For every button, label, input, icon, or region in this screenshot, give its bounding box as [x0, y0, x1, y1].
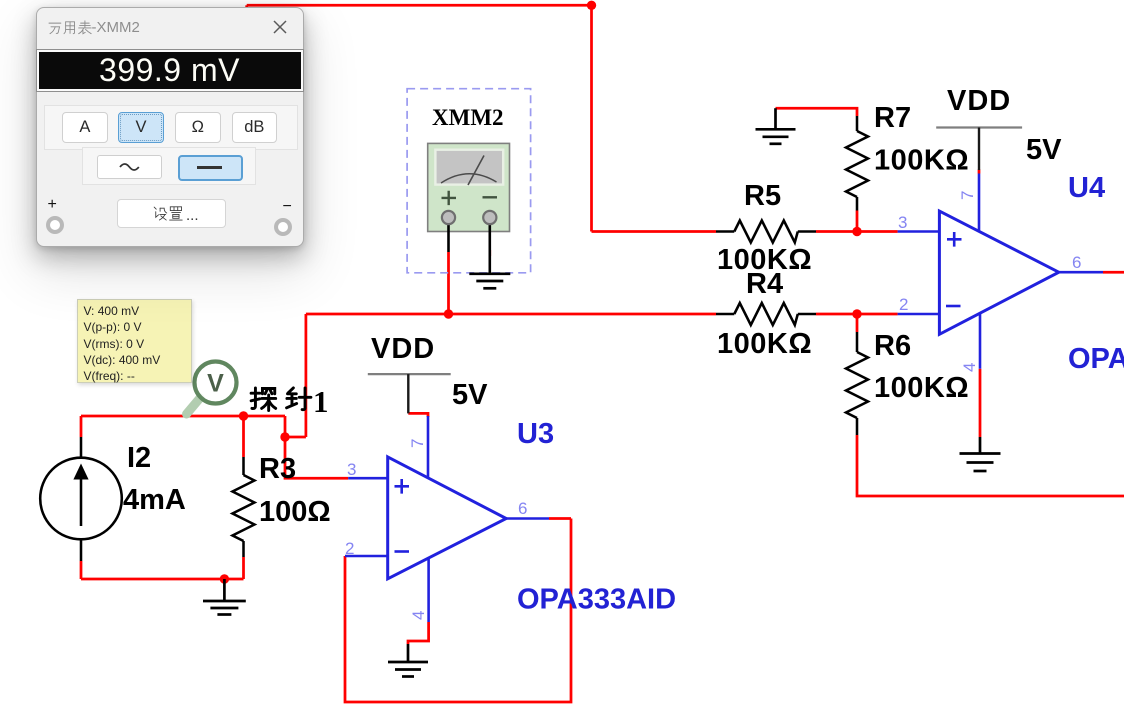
ground G1 (R7 top)	[756, 108, 796, 144]
svg-text:U3: U3	[517, 418, 554, 450]
wire XMM2 plus lead lower part	[447, 252, 450, 314]
wire R4 right to node	[816, 313, 898, 316]
svg-text:R4: R4	[746, 268, 783, 300]
junction top right	[587, 1, 596, 10]
resistor R4	[716, 303, 816, 325]
XMM2 meter display	[435, 150, 503, 185]
current source I2 arrowhead	[73, 464, 88, 480]
probe name 探针1	[251, 384, 328, 419]
svg-text:2: 2	[345, 539, 354, 558]
U4 pin 2 lead	[898, 313, 940, 316]
button DC (selected)	[178, 155, 243, 182]
svg-text:4: 4	[409, 611, 428, 620]
wire I2 bottom lead red	[80, 561, 83, 579]
multimeter dialog XMM2	[36, 7, 304, 247]
U3 pin 3 lead	[348, 477, 388, 480]
button AC	[97, 155, 163, 179]
svg-text:7: 7	[408, 439, 427, 448]
wire U3 feedback loop	[345, 519, 571, 703]
VDD symbol for U4	[936, 128, 1022, 171]
U4 pin 3 lead	[898, 230, 940, 233]
wire U3 pin4 elbow to ground G4	[408, 622, 429, 644]
VDD symbol for U3	[368, 374, 451, 413]
XMM2 plus mark	[442, 191, 457, 205]
wire probe node corner down	[284, 416, 287, 437]
svg-text:R3: R3	[259, 453, 296, 485]
U3 pin 6 lead	[506, 517, 549, 520]
ground G5 (U4 pin4)	[960, 437, 1001, 471]
svg-text:R5: R5	[744, 180, 781, 212]
wire U4 pin4 to ground G5	[979, 369, 982, 437]
resistor R7	[846, 116, 868, 211]
plus terminal label	[48, 196, 57, 214]
probe readout box	[77, 299, 192, 383]
U4 pin 6 lead	[1059, 271, 1103, 274]
ground G4 (U3 pin4)	[388, 644, 428, 677]
svg-text:7: 7	[958, 191, 977, 200]
wire R6 bottom to right edge	[857, 435, 1124, 496]
svg-text:3: 3	[347, 460, 356, 479]
svg-text:VDD: VDD	[947, 85, 1011, 117]
wire I2 top lead red	[80, 416, 83, 437]
button A	[62, 112, 108, 143]
wire middle horizontal to R4	[306, 313, 716, 316]
button Ohm	[175, 112, 221, 143]
resistor R3	[233, 457, 255, 557]
U3 minus marking	[395, 550, 410, 553]
svg-text:5V: 5V	[1026, 134, 1062, 166]
wire R7 top to ground G1	[776, 108, 858, 116]
op-amp U4 triangle	[939, 211, 1058, 334]
wire riser up to middle net	[305, 314, 308, 437]
U4 minus marking	[946, 305, 961, 308]
XMM2 minus mark	[483, 196, 498, 198]
junction ground on bottom net	[220, 574, 229, 583]
current source I2	[40, 437, 122, 561]
XMM2 minus lead red tip	[488, 250, 491, 256]
wire U4 pin7 red tip	[978, 170, 981, 174]
wire down to U3 pin3	[285, 437, 348, 478]
junction R5/R7/U4 pin3	[852, 227, 861, 236]
dialog title	[46, 18, 48, 38]
svg-text:5V: 5V	[452, 379, 488, 411]
wire stub behind dialog	[245, 5, 248, 14]
svg-text:2: 2	[899, 295, 908, 314]
svg-text:100Ω: 100Ω	[259, 496, 331, 528]
XMM2 plus terminal socket	[442, 211, 455, 224]
settings button	[117, 199, 226, 229]
U3 pin 2 lead	[345, 555, 388, 558]
wire right vertical from top to R5 row	[590, 5, 593, 231]
op-amp U3 triangle	[388, 457, 507, 579]
wire top horizontal net	[247, 4, 592, 7]
svg-text:6: 6	[1072, 253, 1081, 272]
dialog close button	[272, 19, 288, 35]
wire R5 right to node	[816, 230, 898, 233]
U3 pin 4 lead	[427, 558, 430, 622]
ground G2 (XMM2 minus)	[469, 274, 510, 289]
svg-text:4: 4	[960, 363, 979, 372]
U4 pin 7 lead	[978, 174, 981, 232]
svg-text:I2: I2	[127, 442, 151, 474]
wire U3 pin7 elbow	[408, 413, 428, 417]
svg-text:100KΩ: 100KΩ	[874, 145, 969, 177]
dialog mode group	[44, 105, 298, 150]
resistor R6	[846, 332, 868, 435]
XMM2 dashed selection box	[407, 89, 530, 273]
wire R3 bottom	[242, 557, 245, 579]
minus terminal socket	[274, 218, 292, 236]
wire R6 top	[856, 314, 859, 332]
svg-text:R6: R6	[874, 330, 911, 362]
junction probe net corner	[280, 432, 289, 441]
minus terminal label	[283, 198, 292, 216]
XMM2 plus terminal lead (black)	[447, 218, 450, 252]
dialog signal group	[82, 147, 256, 185]
svg-text:VDD: VDD	[371, 333, 435, 365]
dialog display	[37, 50, 303, 91]
ground G3 (bottom net)	[203, 579, 246, 615]
svg-text:V: V	[207, 370, 224, 398]
junction R3 top on probe net	[239, 411, 248, 420]
junction R4/R6/U4 pin2	[852, 309, 861, 318]
svg-text:OPA333AID: OPA333AID	[517, 584, 676, 616]
wire probe node horizontal	[81, 415, 285, 418]
U4 pin 4 lead	[979, 313, 982, 368]
XMM2 needle	[468, 156, 484, 186]
XMM2 needle arc	[441, 174, 497, 183]
svg-text:3: 3	[898, 213, 907, 232]
U3 pin 7 lead	[427, 416, 430, 478]
svg-text:XMM2: XMM2	[432, 105, 504, 130]
svg-text:6: 6	[518, 499, 527, 518]
wire bottom net I2 to R3	[81, 578, 244, 581]
button dB	[232, 112, 278, 143]
svg-text:100KΩ: 100KΩ	[874, 372, 969, 404]
svg-text:R7: R7	[874, 102, 911, 134]
XMM2 minus terminal socket	[483, 211, 496, 224]
svg-text:U4: U4	[1068, 172, 1105, 204]
svg-text:4mA: 4mA	[123, 484, 186, 516]
wire node to riser	[285, 436, 306, 439]
U4 plus marking	[947, 232, 962, 247]
XMM2 meter body	[428, 143, 510, 231]
svg-text:OPA333AID: OPA333AID	[1068, 343, 1124, 375]
XMM2 minus terminal lead (black)	[488, 218, 491, 274]
resistor R5	[716, 221, 816, 243]
wire U4 output to right edge	[1103, 271, 1124, 274]
plus terminal socket	[46, 216, 64, 234]
wire to R5 left	[592, 230, 717, 233]
wire R3 top	[242, 416, 245, 457]
svg-text:1: 1	[313, 384, 329, 419]
wire R7 bottom to node	[856, 211, 859, 232]
svg-text:100KΩ: 100KΩ	[717, 328, 812, 360]
probe lens circle	[195, 362, 237, 404]
junction XMM2 plus on middle net	[444, 309, 453, 318]
wire U3 output red	[549, 517, 571, 520]
U3 plus marking	[395, 479, 410, 494]
button V (selected)	[118, 112, 164, 143]
probe lens handle	[187, 398, 201, 414]
